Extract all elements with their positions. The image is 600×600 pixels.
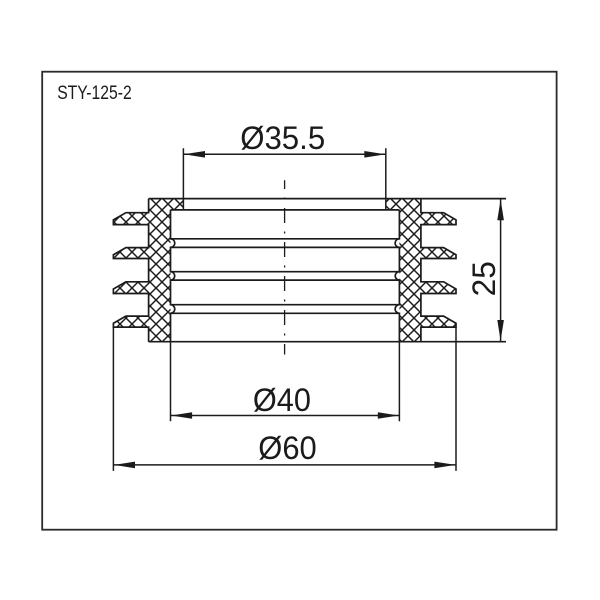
svg-text:STY-125-2: STY-125-2 <box>57 83 132 104</box>
svg-text:Ø40: Ø40 <box>253 382 311 418</box>
svg-text:Ø35.5: Ø35.5 <box>240 120 325 156</box>
svg-text:Ø60: Ø60 <box>258 430 317 466</box>
svg-text:25: 25 <box>466 261 502 296</box>
